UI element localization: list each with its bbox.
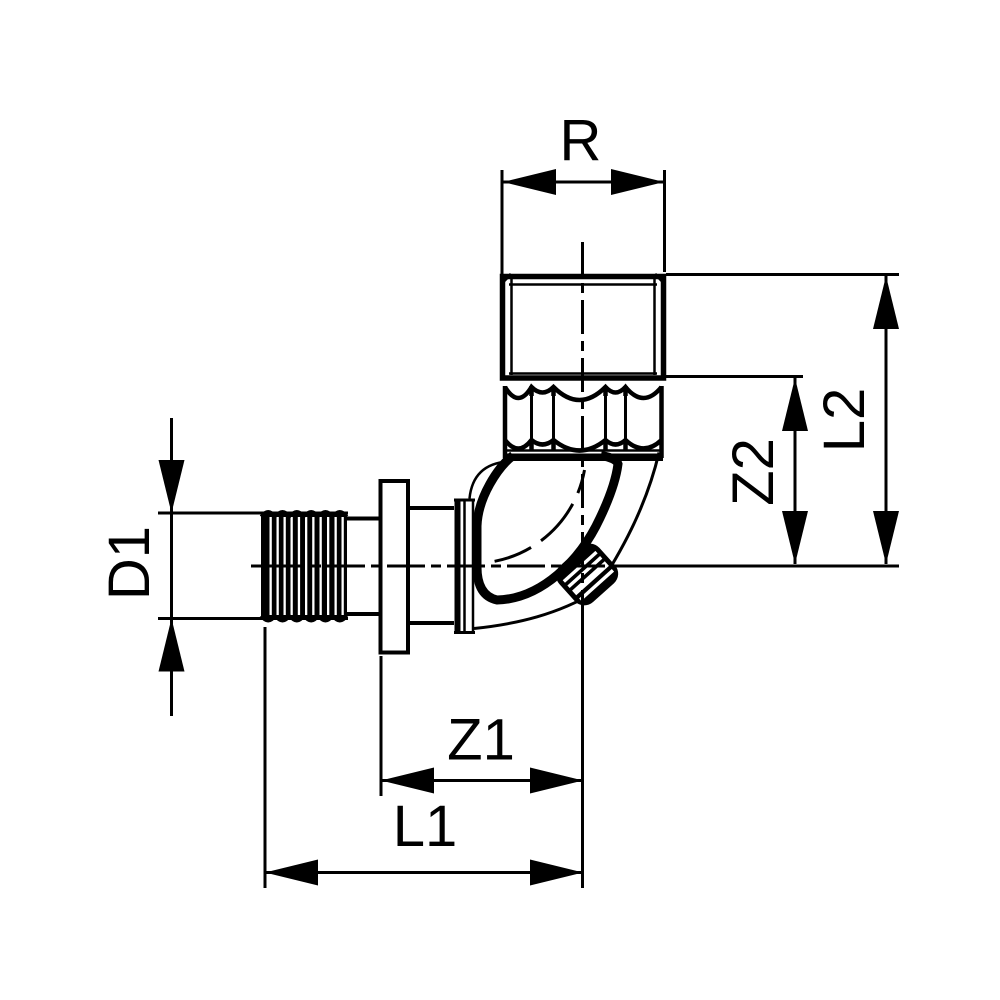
svg-text:R: R — [560, 108, 602, 173]
dimension L2 — [666, 275, 899, 565]
elbow outer thin arc — [474, 453, 659, 629]
svg-text:D1: D1 — [97, 526, 162, 600]
elbow dashed surface arc — [495, 470, 585, 561]
hex nut — [505, 386, 662, 458]
centerline vertical — [581, 242, 584, 606]
dimension Z2 — [663, 377, 808, 565]
elbow inner corner arc — [470, 462, 509, 499]
dimension L1 — [265, 627, 583, 888]
rib crest waves — [261, 512, 347, 622]
centerline horizontal — [251, 565, 625, 568]
ribbed boss on elbow — [551, 538, 624, 611]
svg-text:L2: L2 — [812, 388, 877, 453]
smooth pipe section — [347, 519, 382, 615]
flange collar — [381, 481, 409, 653]
svg-text:Z2: Z2 — [721, 438, 786, 506]
elbow hub ring — [454, 499, 475, 635]
collar under hex — [503, 451, 663, 458]
elbow body thick arc (throat + outer sweep) — [477, 456, 618, 601]
dimension R — [502, 108, 665, 277]
dimension Z1 — [381, 656, 583, 796]
dimension D1 — [97, 418, 348, 716]
mid pipe section — [408, 508, 458, 623]
svg-text:L1: L1 — [393, 794, 458, 859]
svg-text:Z1: Z1 — [447, 708, 515, 773]
male thread body (R end) — [502, 274, 664, 378]
ribbed barb pipe end — [261, 512, 347, 620]
